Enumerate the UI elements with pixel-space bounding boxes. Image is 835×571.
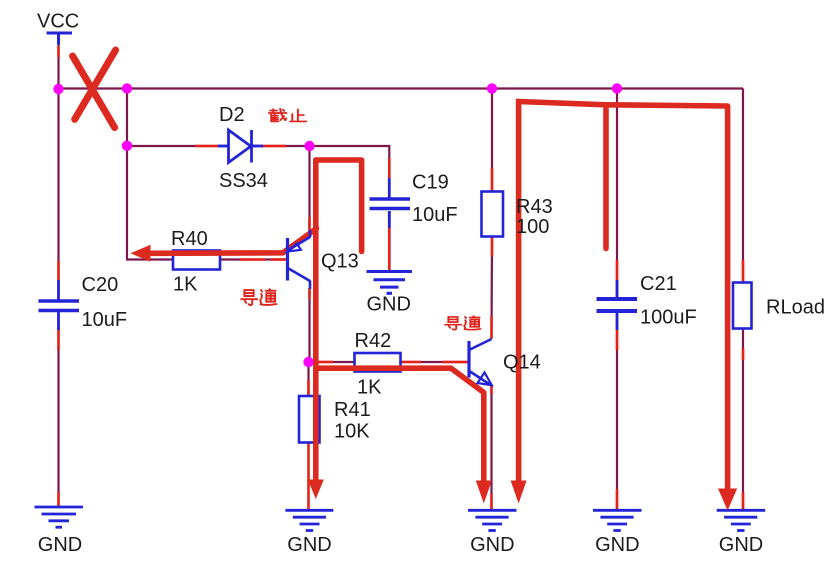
label 10uF of C20 [82, 309, 128, 331]
svg-text:D2: D2 [219, 104, 245, 126]
junction dot D2 anode [122, 141, 132, 151]
red arrowhead down at R41 GND [308, 480, 324, 500]
label 10K of R41 [334, 421, 370, 443]
wire Q14 emitter down to GND [490, 386, 492, 511]
annotation jiezhi cutoff text at D2 [269, 109, 306, 122]
capacitor C21 [597, 280, 638, 330]
wire junction to R42 left [309, 361, 355, 363]
label 1K of R42 [357, 377, 382, 399]
wire R41 bottom to GND [307, 443, 310, 511]
svg-text:10uF: 10uF [82, 309, 128, 331]
wire VCC node down to C20 [57, 89, 59, 300]
ground GND under R41 [285, 510, 333, 530]
resistor R42 [355, 353, 401, 372]
red arrowhead down right rail GND [511, 481, 527, 504]
annotation daotong conducting text at Q13 [241, 289, 276, 305]
wire D2 cathode to Q13 emitter node [252, 145, 310, 147]
label 10uF of C19 [412, 204, 458, 226]
label C20 [82, 274, 119, 296]
red current path right rail from R43 node [519, 102, 606, 482]
svg-text:GND: GND [719, 534, 763, 556]
label GND under R41 [287, 534, 331, 556]
wire Q13 emitter node to C19 top [310, 146, 390, 179]
wire junction down to R41 [307, 362, 309, 396]
ground GND under Q14 [468, 510, 517, 530]
wire node A down to D2 anode node [126, 89, 128, 147]
junction dot C21 node [612, 83, 622, 93]
label GND under RLoad [719, 534, 763, 556]
svg-text:GND: GND [470, 534, 514, 556]
wire D2 anode horizontal [127, 145, 229, 147]
svg-text:C20: C20 [82, 274, 119, 296]
label R42 [355, 330, 392, 352]
wire VCC stub down from VCC symbol [57, 44, 59, 89]
resistor R40 [173, 251, 220, 270]
label GND under Q14 [470, 534, 514, 556]
label Q13 [321, 251, 359, 273]
svg-text:C21: C21 [640, 273, 677, 295]
svg-text:R42: R42 [355, 330, 392, 352]
red arrowhead down at Q14 GND [476, 481, 492, 504]
label RLoad [766, 297, 825, 319]
svg-text:R43: R43 [516, 196, 553, 218]
label C21 [640, 273, 677, 295]
red current path top to RLoad [606, 105, 728, 490]
red current path through R42 to Q14 emitter ground [316, 368, 484, 481]
junction dot R43 node [487, 83, 497, 93]
svg-text:GND: GND [595, 534, 639, 556]
capacitor C19 [370, 178, 411, 228]
wire top rail corner down to RLoad [742, 89, 744, 283]
junction dot R41 R42 Q13 collector [303, 357, 313, 367]
diode D2 SS34 [218, 130, 263, 163]
wire R42 right to Q14 base [401, 361, 470, 363]
label R41 [334, 399, 371, 421]
resistor R41 [299, 396, 320, 443]
label R40 [171, 228, 208, 250]
wire R43 bottom to Q14 collector [490, 237, 493, 340]
svg-text:Q14: Q14 [503, 352, 541, 374]
junction dot VCC node [53, 84, 63, 94]
svg-text:1K: 1K [173, 274, 198, 296]
svg-text:SS34: SS34 [219, 170, 268, 192]
power symbol VCC [47, 33, 73, 45]
label GND under C21 [595, 534, 639, 556]
capacitor C20 [39, 280, 80, 330]
label R43 [516, 196, 553, 218]
wire C21 node down to C21 top [616, 89, 618, 298]
svg-text:GND: GND [287, 534, 331, 556]
svg-text:10uF: 10uF [412, 204, 458, 226]
svg-text:R41: R41 [334, 399, 371, 421]
red cross X power cut mark [73, 50, 116, 128]
annotation daotong conducting text at Q14 [445, 316, 480, 330]
label SS34 [219, 170, 268, 192]
svg-text:100: 100 [516, 216, 549, 238]
svg-text:VCC: VCC [37, 11, 79, 33]
wire R43 node down from top rail [491, 89, 493, 192]
svg-text:C19: C19 [412, 172, 449, 194]
wire C19 bottom to GND [388, 211, 391, 271]
wire Q13 emitter node down to emitter [308, 146, 310, 231]
svg-text:Q13: Q13 [321, 251, 359, 273]
svg-text:100uF: 100uF [640, 307, 697, 329]
svg-text:GND: GND [38, 534, 82, 556]
red current path through R40 to left [149, 229, 317, 254]
ground GND under C20 [35, 507, 84, 527]
red arrowhead down at RLoad GND [718, 489, 737, 511]
ground GND under C19 [367, 272, 413, 294]
label D2 [219, 104, 245, 126]
red current path loop over Q13 collector hook [316, 160, 362, 252]
label GND of C19 [367, 294, 411, 316]
label GND under C20 [38, 534, 82, 556]
svg-text:GND: GND [367, 294, 411, 316]
transistor Q13 PNP [288, 230, 311, 289]
transistor Q14 NPN [469, 339, 492, 386]
wire C20 bottom to GND [57, 312, 59, 507]
resistor RLoad [733, 283, 752, 329]
label 1K of R40 [173, 274, 198, 296]
red current path Q13 vertical to ground [313, 160, 319, 480]
wire C21 bottom to GND [616, 313, 618, 510]
label C19 [412, 172, 449, 194]
svg-text:R40: R40 [171, 228, 208, 250]
wire RLoad bottom to GND [742, 329, 744, 511]
label Q14 [503, 352, 541, 374]
ground GND under C21 [593, 510, 642, 530]
wire VCC net top horizontal [59, 87, 744, 89]
junction dot top rail left [122, 83, 132, 93]
wire D2 anode node down to R40 corner [127, 146, 173, 260]
label 100 of R43 [516, 216, 549, 238]
junction dot D2 cathode Q13 emitter [304, 141, 314, 151]
label VCC [37, 11, 79, 33]
wire R40 right to Q13 base [220, 258, 288, 260]
label 100uF of C21 [640, 307, 697, 329]
red arrowhead left at R40 [131, 245, 151, 262]
ground GND under RLoad [717, 510, 766, 530]
svg-text:RLoad: RLoad [766, 297, 825, 319]
svg-text:1K: 1K [357, 377, 382, 399]
svg-text:10K: 10K [334, 421, 370, 443]
wire Q13 collector down to junction [308, 288, 310, 362]
resistor R43 [482, 192, 504, 237]
